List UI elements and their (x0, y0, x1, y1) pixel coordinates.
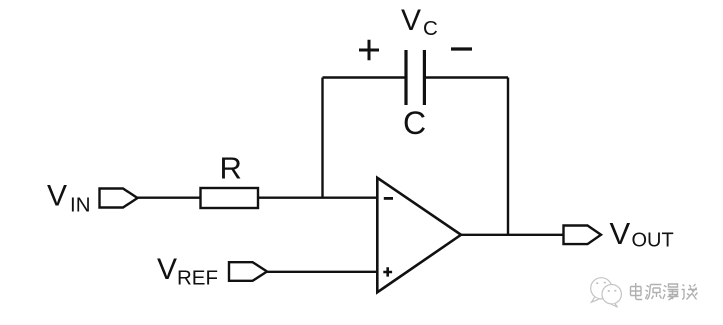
watermark text yuan (source) (646, 285, 662, 300)
label VREF (157, 253, 218, 290)
wire resistor to op-amp inverting input (258, 196, 377, 198)
watermark bubble 1 (591, 278, 612, 299)
svg-text:V: V (401, 4, 421, 37)
wire VREF terminal to op-amp non-inverting input (266, 271, 378, 273)
label VC (401, 4, 438, 40)
label VOUT (610, 216, 674, 252)
op-amp inverting pin minus sign (384, 197, 393, 200)
svg-text:IN: IN (70, 194, 91, 217)
op-amp non-inverting pin plus sign (383, 267, 392, 276)
svg-text:V: V (610, 216, 631, 251)
capacitor C right plate (423, 50, 426, 105)
resistor R1 (201, 188, 259, 208)
wire feedback left vertical (321, 78, 323, 198)
wire capacitor right plate to right vertical (426, 76, 509, 78)
watermark icon chat bubbles (591, 278, 622, 308)
capacitor minus polarity sign (451, 47, 472, 50)
input terminal VIN (100, 189, 138, 208)
svg-text:V: V (47, 180, 67, 213)
input terminal VREF (229, 262, 267, 281)
wire VIN terminal to resistor (136, 196, 201, 198)
svg-text:OUT: OUT (632, 230, 674, 252)
watermark text man (overflow) (663, 284, 679, 300)
wire feedback right vertical (507, 78, 509, 235)
svg-text:C: C (403, 105, 426, 141)
svg-text:C: C (423, 17, 438, 40)
op-amp U1 (377, 178, 461, 292)
output terminal VOUT (564, 226, 602, 245)
capacitor plus polarity sign (359, 40, 379, 60)
wire op-amp output (460, 234, 564, 236)
svg-text:R: R (220, 150, 242, 185)
capacitor C left plate (404, 50, 407, 105)
watermark text tan (talk) (682, 284, 698, 300)
svg-text:V: V (157, 253, 177, 286)
label VIN (47, 180, 91, 217)
watermark bubble 2 (602, 285, 621, 304)
watermark text dian (electric) (631, 283, 643, 300)
wire to capacitor left plate (323, 76, 406, 78)
svg-text:REF: REF (177, 267, 218, 290)
